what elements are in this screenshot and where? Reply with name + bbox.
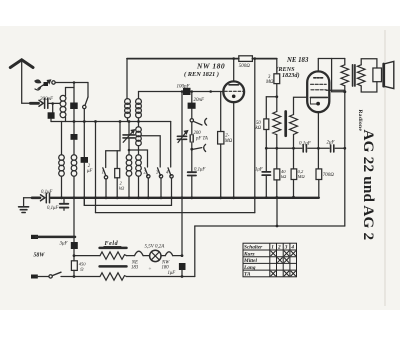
svg-text:700Ω: 700Ω (323, 173, 335, 178)
svg-text:4: 4 (166, 168, 169, 175)
svg-text:4: 4 (290, 245, 294, 251)
svg-text:NW 180: NW 180 (196, 62, 225, 71)
svg-text:200: 200 (194, 131, 202, 136)
svg-text:÷: ÷ (149, 268, 152, 273)
svg-text:Kurz: Kurz (243, 251, 256, 257)
svg-text:1: 1 (271, 245, 274, 251)
svg-text:Schalter: Schalter (244, 245, 263, 251)
svg-text:2: 2 (277, 245, 281, 251)
svg-text:100pF: 100pF (177, 85, 191, 90)
svg-text:1: 1 (102, 169, 105, 175)
svg-text:Radione: Radione (357, 110, 363, 132)
svg-text:MΩ: MΩ (224, 139, 233, 144)
svg-text:2-: 2- (225, 134, 229, 139)
svg-text:Lang: Lang (243, 265, 256, 271)
svg-text:0,1μF: 0,1μF (47, 206, 58, 211)
svg-text:2μF: 2μF (327, 141, 336, 146)
svg-text:3: 3 (156, 169, 159, 175)
svg-text:0,1μF: 0,1μF (299, 141, 312, 146)
svg-text:NE: NE (131, 260, 138, 265)
svg-text:kΩ: kΩ (281, 174, 287, 179)
svg-text:Feld: Feld (105, 241, 119, 247)
svg-text:5,5V 0,2A: 5,5V 0,2A (145, 244, 166, 249)
svg-text:180: 180 (162, 266, 170, 271)
svg-text:Mittel: Mittel (243, 258, 257, 264)
svg-text:1μF: 1μF (168, 271, 176, 276)
svg-text:20nF: 20nF (194, 98, 206, 103)
svg-text:1μF: 1μF (255, 167, 263, 172)
svg-text:58W: 58W (34, 252, 46, 258)
svg-text:3μF: 3μF (60, 241, 69, 246)
svg-text:200pF: 200pF (40, 97, 54, 102)
svg-text:3: 3 (284, 245, 288, 251)
svg-text:MΩ: MΩ (297, 174, 306, 179)
svg-text:0,1μF: 0,1μF (41, 190, 52, 195)
svg-text:kΩ: kΩ (256, 126, 262, 131)
svg-text:50: 50 (256, 121, 261, 126)
svg-text:0,1μF: 0,1μF (194, 168, 205, 173)
svg-text:1823d): 1823d) (282, 72, 300, 79)
svg-text:AG 22 und AG 2: AG 22 und AG 2 (360, 130, 377, 241)
svg-text:kΩ: kΩ (119, 185, 125, 190)
svg-text:500Ω: 500Ω (239, 64, 251, 69)
svg-text:pF TA: pF TA (195, 136, 208, 141)
svg-text:183: 183 (131, 266, 139, 271)
svg-text:μF: μF (87, 169, 92, 174)
svg-text:NE 183: NE 183 (286, 57, 309, 64)
svg-text:TA: TA (244, 272, 251, 278)
svg-text:2: 2 (144, 169, 147, 175)
svg-text:( REN 1821 ): ( REN 1821 ) (184, 71, 219, 78)
svg-text:NW: NW (161, 260, 170, 265)
svg-text:MΩ: MΩ (265, 80, 274, 85)
